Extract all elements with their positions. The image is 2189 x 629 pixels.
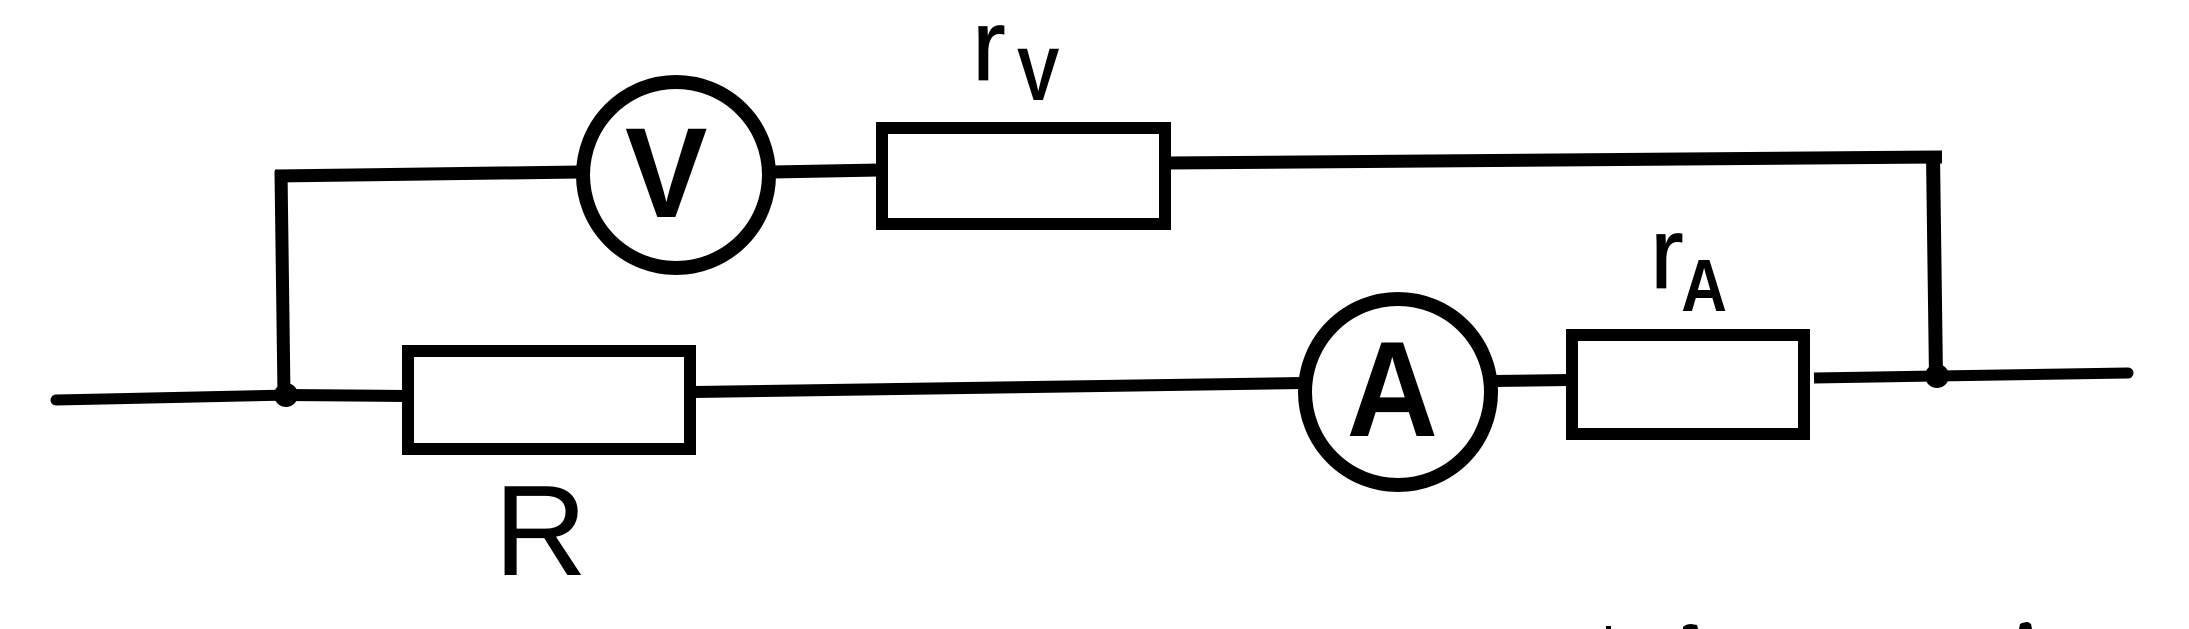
ammeter letter A [1347,313,1438,465]
wire right lead [1937,373,2128,376]
wire R to A [694,383,1302,392]
resistor rA [1572,335,1804,434]
label rV [972,0,1059,116]
wire V to rV [772,170,880,172]
label R [494,459,587,603]
svg-text:A: A [1681,244,1727,327]
voltmeter V circle [583,82,769,268]
svg-text:r: r [972,0,1006,102]
voltmeter letter V [625,101,708,244]
svg-text:R: R [494,459,587,603]
svg-text:V: V [625,101,708,244]
wire rA to right node [1814,376,1937,378]
wire left node to R [287,395,406,396]
wire right vertical [1933,155,1936,377]
stray mark blob 1 [1683,624,1698,629]
svg-text:A: A [1347,313,1438,465]
wire A to rA [1494,380,1570,381]
svg-text:r: r [1650,198,1684,310]
ammeter A circle [1305,299,1491,485]
node junction dot right [1925,364,1949,388]
label rA [1650,198,1727,327]
wire left lead [56,395,290,400]
stray mark blob 2 [2019,622,2032,629]
resistor R [408,351,690,449]
stray mark tick [1606,626,1611,629]
node junction dot left [274,383,298,407]
resistor rV [882,128,1165,224]
wire left vertical [281,171,284,395]
svg-text:V: V [1017,34,1059,117]
wire top left [275,172,580,176]
wire top right [1168,157,1942,163]
